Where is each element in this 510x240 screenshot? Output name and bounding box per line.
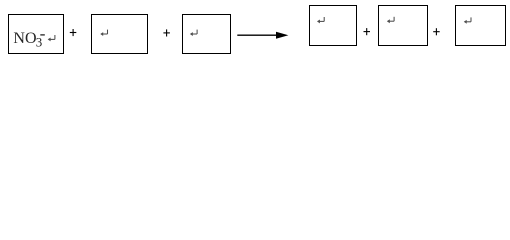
svg-text:NO: NO: [13, 30, 36, 47]
svg-text:3: 3: [36, 35, 43, 50]
